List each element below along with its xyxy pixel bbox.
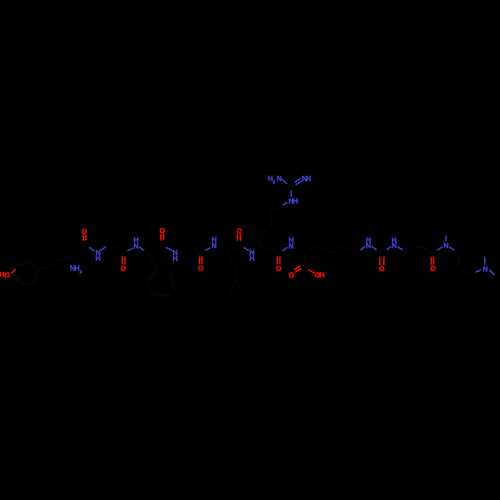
svg-text:2: 2	[273, 179, 276, 185]
svg-text:H: H	[289, 235, 294, 244]
svg-text:N: N	[483, 264, 488, 273]
svg-text:H: H	[212, 235, 217, 244]
svg-text:2: 2	[79, 269, 82, 275]
svg-text:O: O	[82, 227, 88, 236]
svg-text:O: O	[379, 264, 385, 273]
svg-text:H: H	[172, 254, 177, 263]
svg-text:O: O	[430, 264, 436, 273]
svg-text:O: O	[289, 271, 295, 280]
svg-text:H: H	[366, 236, 371, 245]
svg-text:O: O	[160, 226, 166, 235]
svg-text:O: O	[121, 264, 127, 273]
svg-text:H: H	[249, 254, 254, 263]
svg-text:H: H	[391, 236, 396, 245]
svg-text:H: H	[95, 254, 100, 263]
svg-text:N: N	[444, 241, 449, 250]
svg-text:N: N	[276, 174, 281, 183]
svg-text:H: H	[293, 197, 298, 206]
svg-text:O: O	[236, 226, 242, 235]
svg-text:O: O	[4, 271, 10, 280]
svg-text:H: H	[319, 271, 324, 280]
svg-text:H: H	[133, 235, 138, 244]
svg-text:O: O	[198, 264, 204, 273]
svg-text:O: O	[276, 264, 282, 273]
svg-text:H: H	[306, 174, 311, 183]
